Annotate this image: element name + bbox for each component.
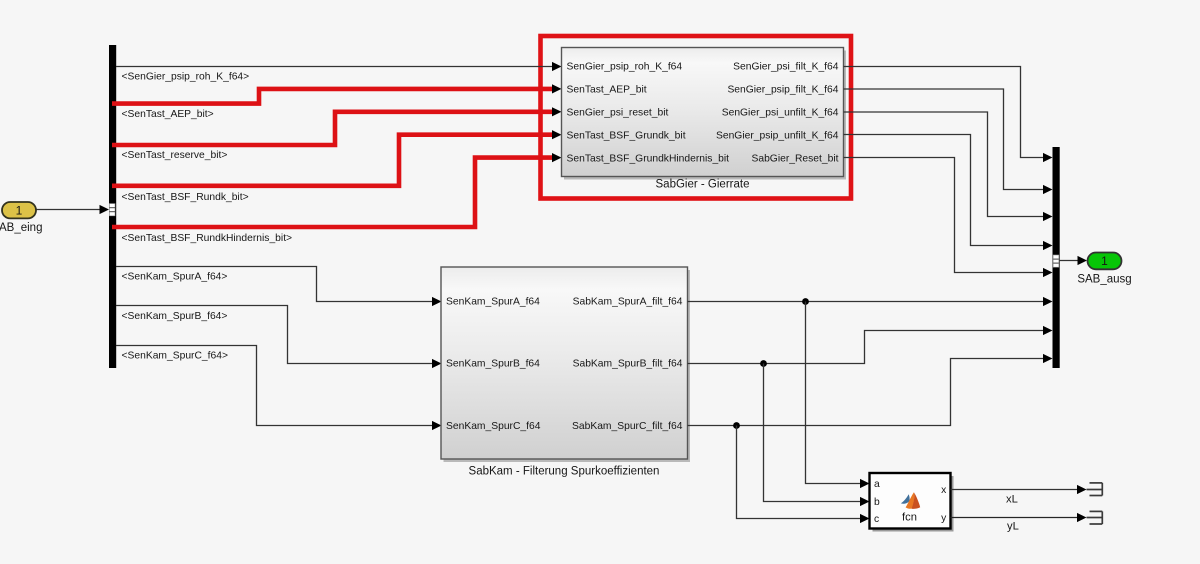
arrowhead into SabKam in1 bbox=[432, 297, 442, 306]
subsystem block SabKam bbox=[441, 267, 688, 459]
svg-text:SenKam_SpurA_f64: SenKam_SpurA_f64 bbox=[446, 297, 540, 308]
MATLAB logo dark orange bbox=[912, 492, 921, 509]
svg-text:b: b bbox=[874, 497, 880, 508]
arrowhead into SabGier in5 bbox=[552, 153, 562, 162]
junction dot on SpurC wire bbox=[733, 422, 740, 429]
inport AB_eing wire arrowhead bbox=[100, 205, 110, 214]
arrowhead into bus (out2) bbox=[1043, 185, 1053, 194]
bus creator bar (right bus) bbox=[1053, 147, 1060, 368]
wire tap SenKam_SpurA (to SabKam in1) bbox=[116, 267, 434, 302]
highlight box around SabGier (red selection rectangle) bbox=[541, 36, 852, 199]
arrowhead into bus (out1) bbox=[1043, 153, 1053, 162]
svg-text:yL: yL bbox=[1007, 520, 1019, 532]
svg-text:xL: xL bbox=[1006, 493, 1018, 505]
bus selector bar (left bus) bbox=[109, 45, 116, 368]
wire fcn y output bbox=[951, 517, 1079, 519]
arrowhead into bus (SpurA filt) bbox=[1043, 297, 1053, 306]
wire branch to fcn a bbox=[806, 302, 862, 484]
arrowhead into outport bbox=[1078, 256, 1088, 265]
arrowhead into bus (out5) bbox=[1043, 268, 1053, 277]
svg-text:SenGier_psip_unfilt_K_f64: SenGier_psip_unfilt_K_f64 bbox=[716, 130, 839, 141]
svg-text:<SenTast_BSF_Rundk_bit>: <SenTast_BSF_Rundk_bit> bbox=[122, 192, 249, 203]
svg-text:SabGier_Reset_bit: SabGier_Reset_bit bbox=[751, 153, 838, 164]
svg-text:SAB_ausg: SAB_ausg bbox=[1077, 274, 1131, 286]
svg-text:SabGier - Gierrate: SabGier - Gierrate bbox=[656, 179, 750, 191]
wire SabGier out5 to bus bbox=[844, 158, 1046, 273]
dangling connector symbol x bbox=[1087, 483, 1103, 496]
svg-text:AB_eing: AB_eing bbox=[0, 222, 42, 234]
svg-text:y: y bbox=[941, 513, 947, 524]
svg-text:SenGier_psi_filt_K_f64: SenGier_psi_filt_K_f64 bbox=[733, 62, 839, 73]
svg-text:c: c bbox=[874, 514, 879, 525]
arrowhead into bus (out4) bbox=[1043, 241, 1053, 250]
svg-text:<SenTast_AEP_bit>: <SenTast_AEP_bit> bbox=[122, 109, 214, 120]
inport block AB_eing (oval "1") bbox=[2, 202, 36, 218]
red wire SenTast_BSF_RundkHindernis_bit bbox=[112, 158, 552, 227]
wire tap SenKam_SpurC (to SabKam in3) bbox=[116, 346, 434, 426]
svg-text:SenGier_psi_unfilt_K_f64: SenGier_psi_unfilt_K_f64 bbox=[722, 108, 839, 119]
MATLAB logo blue wing bbox=[901, 494, 910, 504]
wire fcn x output bbox=[951, 489, 1079, 491]
svg-text:SabKam_SpurB_filt_f64: SabKam_SpurB_filt_f64 bbox=[573, 359, 683, 370]
bus input port tick icon bbox=[109, 204, 115, 216]
arrowhead into fcn c bbox=[860, 514, 870, 523]
svg-text:SabKam_SpurA_filt_f64: SabKam_SpurA_filt_f64 bbox=[573, 297, 683, 308]
arrowhead into bus (out3) bbox=[1043, 212, 1053, 221]
wire SabKam out1 to bus bbox=[688, 301, 1046, 303]
svg-text:<SenKam_SpurA_f64>: <SenKam_SpurA_f64> bbox=[122, 272, 228, 283]
svg-text:SenTast_AEP_bit: SenTast_AEP_bit bbox=[567, 85, 647, 96]
wire SabGier out1 to bus bbox=[844, 67, 1046, 158]
MATLAB Function block shadow bbox=[873, 476, 954, 532]
red wire SenTast_reserve_bit bbox=[112, 112, 552, 145]
svg-text:SenTast_BSF_GrundkHindernis_bi: SenTast_BSF_GrundkHindernis_bit bbox=[567, 153, 730, 164]
svg-text:SenKam_SpurC_f64: SenKam_SpurC_f64 bbox=[446, 421, 541, 432]
svg-text:1: 1 bbox=[16, 203, 23, 217]
arrowhead into SabKam in3 bbox=[432, 421, 442, 430]
SabGier block shadow bbox=[564, 51, 846, 180]
arrowhead into bus (SpurB filt) bbox=[1043, 326, 1053, 335]
wire SabKam out3 to bus bbox=[688, 359, 1046, 426]
arrowhead into SabGier in3 bbox=[552, 107, 562, 116]
wire bus to outport bbox=[1060, 260, 1079, 262]
MATLAB Function block fcn bbox=[870, 473, 951, 529]
SabKam block shadow bbox=[444, 270, 691, 462]
arrowhead into fcn a bbox=[860, 479, 870, 488]
arrowhead fcn x dangling bbox=[1077, 485, 1087, 494]
svg-text:SenGier_psip_roh_K_f64: SenGier_psip_roh_K_f64 bbox=[567, 62, 683, 73]
wire SabKam out2 to bus bbox=[688, 331, 1046, 364]
dangling connector symbol y bbox=[1087, 511, 1103, 524]
wire branch to fcn b bbox=[764, 364, 862, 502]
svg-text:SabKam - Filterung Spurkoeffiz: SabKam - Filterung Spurkoeffizienten bbox=[469, 465, 660, 477]
red wire SenTast_BSF_Rundk_bit bbox=[112, 135, 552, 186]
svg-text:<SenGier_psip_roh_K_f64>: <SenGier_psip_roh_K_f64> bbox=[122, 72, 250, 83]
svg-text:SabKam_SpurC_filt_f64: SabKam_SpurC_filt_f64 bbox=[572, 421, 683, 432]
red wire SenTast_AEP_bit bbox=[112, 89, 552, 104]
svg-text:SenTast_BSF_Grundk_bit: SenTast_BSF_Grundk_bit bbox=[567, 130, 686, 141]
svg-text:SenGier_psip_filt_K_f64: SenGier_psip_filt_K_f64 bbox=[727, 85, 838, 96]
junction dot on SpurB wire bbox=[760, 360, 767, 367]
svg-text:SenGier_psi_reset_bit: SenGier_psi_reset_bit bbox=[567, 108, 669, 119]
MATLAB logo bright orange bbox=[906, 492, 915, 509]
svg-text:<SenKam_SpurC_f64>: <SenKam_SpurC_f64> bbox=[122, 351, 228, 362]
outport block SAB_ausg (green oval "1") bbox=[1088, 253, 1122, 270]
wire SabGier out3 to bus bbox=[844, 112, 1046, 217]
subsystem block SabGier bbox=[562, 48, 844, 177]
arrowhead into bus (SpurC filt) bbox=[1043, 354, 1053, 363]
inport AB_eing wire bbox=[36, 209, 101, 211]
junction dot on SpurA wire bbox=[802, 298, 809, 305]
wire tap SenKam_SpurB (to SabKam in2) bbox=[116, 306, 434, 364]
svg-text:<SenTast_BSF_RundkHindernis_bi: <SenTast_BSF_RundkHindernis_bit> bbox=[122, 233, 293, 244]
svg-text:fcn: fcn bbox=[902, 511, 917, 523]
bus output port tick icon bbox=[1053, 255, 1059, 267]
wire branch to fcn c bbox=[737, 426, 862, 519]
arrowhead into fcn b bbox=[860, 497, 870, 506]
arrowhead into SabGier in4 bbox=[552, 130, 562, 139]
arrowhead into SabGier in1 bbox=[552, 62, 562, 71]
arrowhead into SabGier in2 bbox=[552, 84, 562, 93]
wire tap SenGier_psip_roh (thin, to SabGier in1) bbox=[116, 66, 554, 68]
svg-text:x: x bbox=[941, 485, 947, 496]
svg-text:a: a bbox=[874, 479, 880, 490]
svg-text:<SenTast_reserve_bit>: <SenTast_reserve_bit> bbox=[122, 150, 228, 161]
svg-text:1: 1 bbox=[1101, 254, 1108, 268]
wire SabGier out2 to bus bbox=[844, 89, 1046, 190]
arrowhead into SabKam in2 bbox=[432, 359, 442, 368]
svg-text:<SenKam_SpurB_f64>: <SenKam_SpurB_f64> bbox=[122, 311, 228, 322]
arrowhead fcn y dangling bbox=[1077, 513, 1087, 522]
svg-text:SenKam_SpurB_f64: SenKam_SpurB_f64 bbox=[446, 359, 540, 370]
wire SabGier out4 to bus bbox=[844, 135, 1046, 246]
